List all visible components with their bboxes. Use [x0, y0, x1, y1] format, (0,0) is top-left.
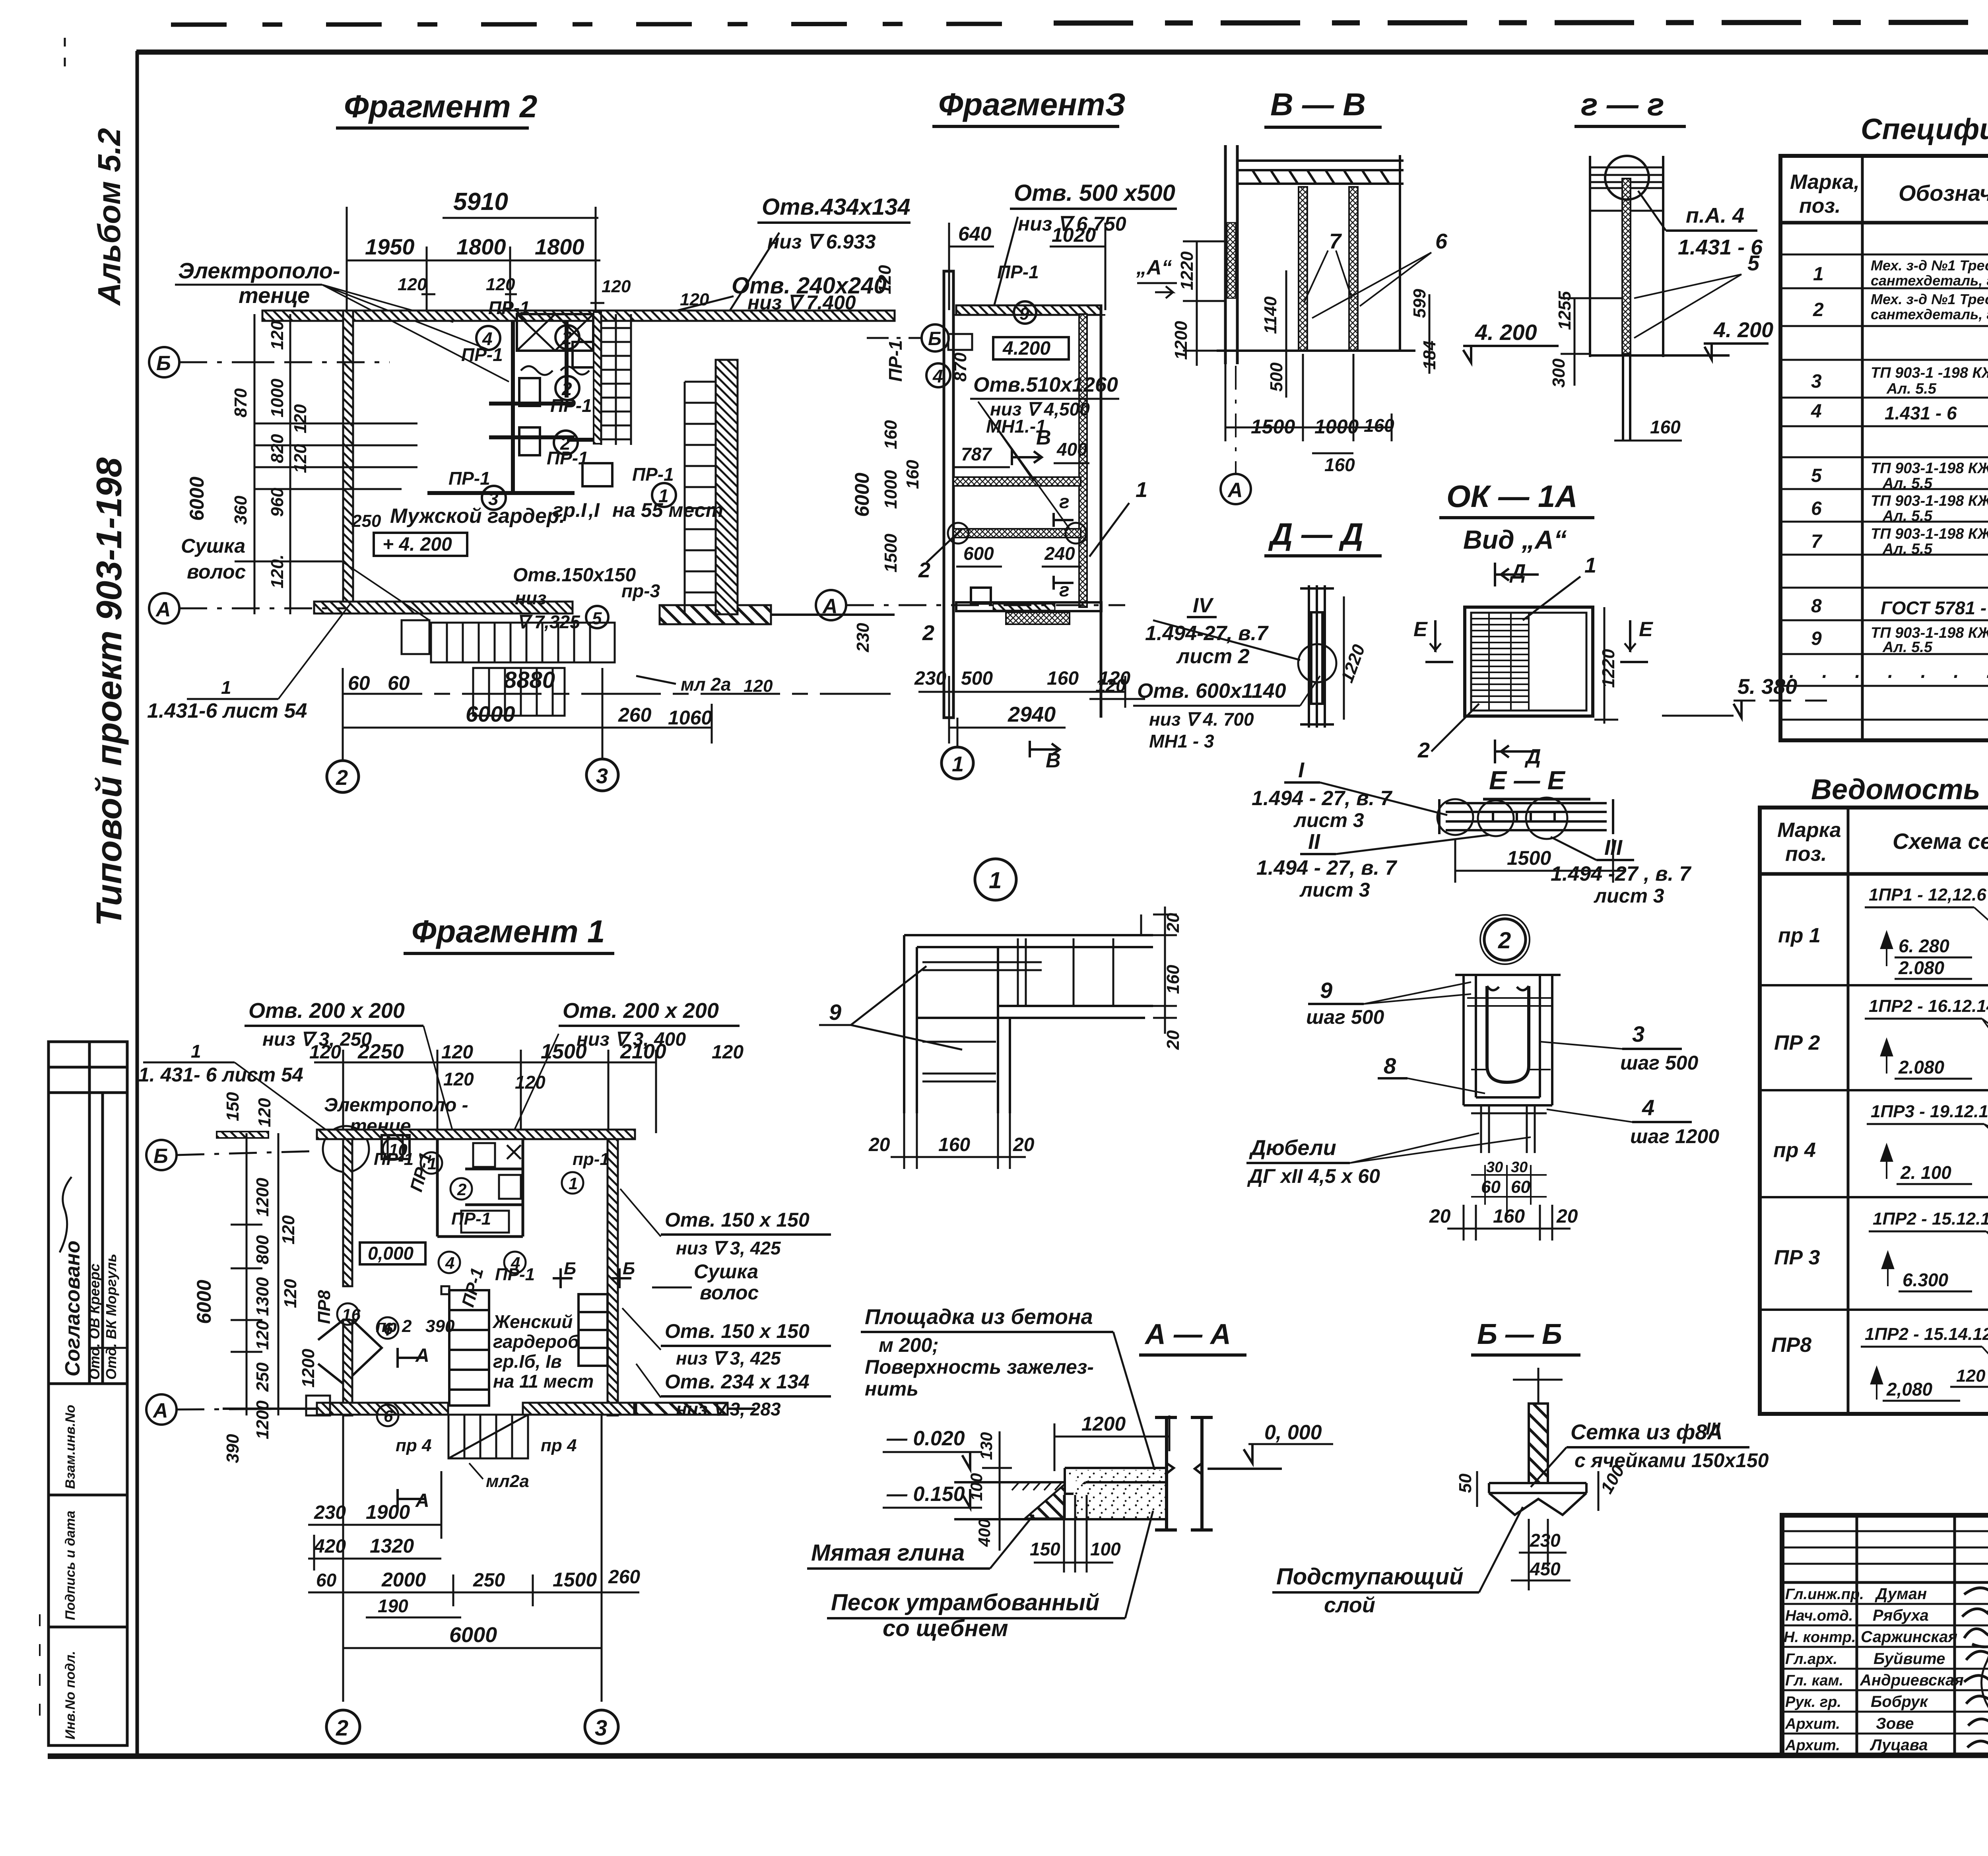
svg-text:5: 5: [592, 609, 602, 628]
central hatched post: [1622, 179, 1631, 354]
svg-text:6000: 6000: [186, 477, 208, 521]
svg-text:Мужской гардер.: Мужской гардер.: [390, 505, 565, 528]
svg-text:Б: Б: [156, 352, 171, 375]
svg-text:1140: 1140: [1261, 296, 1280, 334]
svg-text:1300: 1300: [253, 1277, 272, 1316]
svg-text:1ПР2 - 16.12.14: 1ПР2 - 16.12.14: [1869, 996, 1988, 1016]
svg-text:Д: Д: [1524, 745, 1541, 768]
svg-text:2,080: 2,080: [1886, 1379, 1933, 1400]
svg-text:Отд. ОВ Креерс: Отд. ОВ Креерс: [86, 1264, 103, 1380]
svg-text:1220: 1220: [1599, 649, 1618, 688]
svg-text:6000: 6000: [193, 1280, 215, 1324]
svg-text:120: 120: [279, 1215, 298, 1244]
svg-text:Сетка из ф8А: Сетка из ф8А: [1571, 1420, 1722, 1444]
svg-text:Марка,: Марка,: [1790, 171, 1860, 194]
svg-text:120: 120: [255, 1098, 274, 1127]
SECTGG: [1549, 87, 1773, 441]
svg-text:8: 8: [1384, 1053, 1396, 1078]
svg-text:120: 120: [1095, 675, 1126, 696]
svg-text:шаг 500: шаг 500: [1620, 1052, 1698, 1074]
svg-text:960: 960: [268, 487, 287, 517]
svg-text:2.080: 2.080: [1898, 957, 1945, 978]
right side dims: [1141, 907, 1177, 1034]
svg-text:1ПР2 - 15.14.12: 1ПР2 - 15.14.12: [1865, 1324, 1988, 1344]
svg-text:1800: 1800: [456, 234, 506, 259]
louvred half: [1471, 613, 1529, 711]
SECTBB: [1136, 87, 1559, 504]
svg-text:Схема сечения: Схема сечения: [1893, 829, 1988, 854]
ramp grid below: [448, 1415, 528, 1458]
svg-text:1200: 1200: [299, 1349, 318, 1388]
svg-text:1200: 1200: [1081, 1413, 1126, 1435]
svg-text:1.494 - 27, в. 7: 1.494 - 27, в. 7: [1252, 787, 1392, 810]
svg-text:1ПР2 - 15.12.14: 1ПР2 - 15.12.14: [1873, 1209, 1988, 1229]
vertical member: [1300, 585, 1334, 728]
svg-text:2. 100: 2. 100: [1900, 1162, 1951, 1183]
svg-text:Ал. 5.5: Ал. 5.5: [1882, 541, 1933, 557]
svg-text:Рук. гр.: Рук. гр.: [1785, 1694, 1841, 1710]
svg-text:Н. контр.: Н. контр.: [1784, 1629, 1856, 1646]
FRAG3: [816, 87, 1320, 779]
bottom dim chains: [308, 1415, 639, 1702]
svg-text:870: 870: [231, 388, 250, 417]
svg-text:787: 787: [961, 444, 992, 464]
svg-text:7: 7: [1329, 229, 1342, 253]
svg-text:30: 30: [1486, 1159, 1503, 1176]
hatched partition bands: [953, 477, 1081, 486]
walls: [317, 1130, 635, 1139]
svg-text:Отв. 150 х 150: Отв. 150 х 150: [665, 1209, 810, 1231]
svg-text:гардероб: гардероб: [493, 1331, 580, 1352]
svg-text:м 200;: м 200;: [879, 1334, 939, 1356]
svg-text:4. 200: 4. 200: [1475, 320, 1537, 345]
svg-text:сантехдеталь, г. Горький: сантехдеталь, г. Горький: [1871, 306, 1988, 322]
svg-text:слой: слой: [1324, 1593, 1375, 1617]
svg-text:А: А: [1227, 479, 1243, 502]
svg-text:на 55 мест: на 55 мест: [612, 499, 723, 521]
svg-text:волос: волос: [700, 1281, 759, 1304]
svg-text:Саржинская: Саржинская: [1861, 1628, 1957, 1646]
svg-text:Сушка: Сушка: [694, 1260, 758, 1283]
SECTEE: [1252, 758, 1691, 907]
svg-text:А: А: [415, 1490, 429, 1511]
column circle 1: [942, 747, 973, 779]
window frame: [1465, 607, 1593, 716]
inner rebar U: [1487, 986, 1529, 1082]
rebar ties horizontal leg: [922, 938, 1113, 1081]
svg-text:лист 3: лист 3: [1594, 885, 1664, 907]
svg-text:,I: ,I: [588, 499, 600, 521]
svg-text:Вид „А“: Вид „А“: [1463, 525, 1567, 554]
svg-text:пр 4: пр 4: [396, 1436, 431, 1455]
svg-text:160: 160: [1650, 417, 1681, 437]
svg-text:1.431 - 6: 1.431 - 6: [1885, 403, 1957, 423]
walls: top wall hatched: [262, 311, 895, 321]
svg-text:п.А. 4: п.А. 4: [1686, 204, 1744, 227]
svg-text:150: 150: [1030, 1539, 1060, 1559]
below-ground continuation: [1623, 355, 1630, 440]
svg-text:Б: Б: [564, 1259, 576, 1278]
horizontal member: [1439, 799, 1613, 834]
svg-text:9: 9: [1019, 304, 1029, 324]
svg-text:мл2а: мл2а: [486, 1472, 529, 1491]
svg-text:4: 4: [1811, 401, 1822, 422]
svg-text:450: 450: [1530, 1559, 1561, 1579]
svg-text:20: 20: [868, 1134, 890, 1155]
svg-text:Б: Б: [153, 1145, 168, 1168]
svg-text:пр 2: пр 2: [376, 1316, 412, 1336]
svg-text:60: 60: [348, 672, 370, 694]
svg-text:Думан: Думан: [1875, 1585, 1927, 1603]
signature scribbles: [60, 1177, 72, 1252]
top dim chain: [314, 1050, 656, 1133]
svg-text:ПР-1: ПР-1: [451, 1209, 491, 1229]
svg-text:Д: Д: [1509, 560, 1526, 583]
svg-text:ПР-1: ПР-1: [374, 1149, 414, 1169]
svg-text:Ал. 5.5: Ал. 5.5: [1882, 508, 1933, 524]
svg-text:6000: 6000: [449, 1623, 497, 1647]
svg-text:120: 120: [309, 1042, 341, 1063]
svg-text:120: 120: [515, 1072, 546, 1093]
svg-text:4: 4: [482, 328, 493, 349]
wardrobe racks right: [579, 1294, 608, 1366]
Б marks: [553, 1268, 573, 1288]
washbasins: [519, 378, 540, 406]
svg-text:низ ∇ 6.933: низ ∇ 6.933: [767, 231, 876, 253]
svg-text:1900: 1900: [366, 1501, 410, 1523]
svg-text:1320: 1320: [370, 1535, 414, 1557]
axis circle A: [1221, 474, 1251, 504]
PEREMTABLE: [1760, 774, 1988, 1414]
svg-text:1: 1: [191, 1041, 201, 1062]
lintel table grid: [1760, 808, 1988, 1414]
stray scan specks: [39, 1614, 41, 1722]
svg-text:Мех. з-д №1 Треста: Мех. з-д №1 Треста: [1871, 291, 1988, 307]
roof band: [1237, 161, 1404, 184]
svg-text:120: 120: [744, 676, 773, 696]
floor line: [1217, 349, 1415, 352]
outer boundary lines: [1589, 156, 1591, 357]
svg-text:низ ∇ 3, 283: низ ∇ 3, 283: [676, 1399, 781, 1419]
svg-text:пр 4: пр 4: [541, 1436, 577, 1455]
ground line: [1589, 354, 1730, 357]
svg-text:1.494 -27 , в. 7: 1.494 -27 , в. 7: [1551, 862, 1691, 885]
column circles: [327, 761, 359, 792]
roof lines: [1590, 167, 1664, 211]
svg-text:1: 1: [221, 677, 231, 698]
svg-text:20: 20: [1163, 913, 1183, 933]
svg-text:1060: 1060: [668, 707, 712, 729]
svg-text:160: 160: [1047, 668, 1079, 689]
svg-text:20: 20: [1556, 1206, 1578, 1227]
svg-text:500: 500: [961, 668, 993, 689]
svg-text:шаг 500: шаг 500: [1306, 1006, 1384, 1028]
top frame line (noisy scan edge): [136, 50, 1988, 55]
svg-text:1: 1: [569, 1174, 578, 1193]
svg-text:Д — Д: Д — Д: [1268, 516, 1363, 551]
svg-text:5: 5: [1811, 465, 1822, 486]
svg-text:+ 4. 200: + 4. 200: [382, 534, 452, 555]
circled callouts: [337, 1138, 583, 1426]
below dims: [1511, 1519, 1571, 1590]
svg-text:А: А: [822, 595, 838, 618]
svg-text:2: 2: [1813, 299, 1824, 320]
hatched posts: [1299, 187, 1307, 351]
ties: [1467, 998, 1553, 1070]
svg-text:пр-1: пр-1: [573, 1149, 610, 1169]
svg-text:120.: 120.: [268, 554, 287, 588]
svg-text:1255: 1255: [1555, 291, 1574, 330]
svg-text:3: 3: [1632, 1021, 1644, 1046]
svg-text:Гл.арх.: Гл.арх.: [1785, 1651, 1837, 1668]
svg-text:4. 200: 4. 200: [1713, 318, 1773, 342]
svg-text:120: 120: [441, 1042, 473, 1063]
svg-text:100: 100: [1090, 1539, 1121, 1559]
TITLEBLOCK: [1782, 1515, 1988, 1800]
svg-text:лист 2: лист 2: [1176, 645, 1250, 668]
svg-text:2: 2: [561, 379, 572, 399]
svg-text:Б: Б: [928, 328, 942, 349]
stair / corridor: [449, 1290, 489, 1406]
svg-text:4: 4: [1642, 1095, 1654, 1120]
svg-text:1.494 - 27, в. 7: 1.494 - 27, в. 7: [1256, 856, 1397, 879]
hatched column: [1529, 1404, 1548, 1483]
svg-text:— 0.150: — 0.150: [886, 1483, 965, 1506]
svg-text:IV: IV: [1193, 594, 1214, 617]
svg-text:1020: 1020: [1052, 224, 1096, 246]
svg-text:поз.: поз.: [1799, 194, 1841, 217]
svg-text:1500: 1500: [541, 1040, 587, 1063]
UZEL2: [1246, 915, 1719, 1241]
circled numbers: [476, 325, 950, 510]
svg-text:20: 20: [1429, 1206, 1451, 1227]
SECTAA: [807, 1305, 1333, 1641]
column circles: [326, 1710, 360, 1743]
svg-text:В — В: В — В: [1270, 87, 1366, 122]
svg-text:230: 230: [1530, 1530, 1561, 1551]
svg-text:160: 160: [1493, 1206, 1525, 1227]
svg-text:ПР-1: ПР-1: [632, 464, 674, 485]
svg-text:1200: 1200: [1171, 321, 1191, 360]
svg-text:Луцава: Луцава: [1870, 1736, 1928, 1754]
svg-text:1220: 1220: [1177, 251, 1197, 290]
svg-text:ПР-1: ПР-1: [885, 340, 906, 382]
bottom dims: [1225, 354, 1392, 453]
DETDD: [1089, 516, 1382, 728]
svg-text:Фрагмент 2: Фрагмент 2: [344, 89, 537, 124]
svg-text:1000: 1000: [881, 470, 901, 509]
svg-text:Отв. 200 х 200: Отв. 200 х 200: [248, 999, 405, 1023]
svg-text:Отв. 234 х 134: Отв. 234 х 134: [665, 1371, 810, 1393]
svg-text:6: 6: [1435, 229, 1448, 253]
svg-text:пр 4: пр 4: [1773, 1139, 1816, 1162]
svg-text:4: 4: [445, 1254, 454, 1272]
svg-text:4: 4: [932, 366, 943, 386]
top dims: [949, 223, 1105, 310]
floor line right of wall: [1208, 1468, 1282, 1470]
svg-text:III: III: [1706, 1419, 1720, 1439]
svg-text:В: В: [1036, 426, 1051, 449]
svg-text:230: 230: [853, 623, 873, 652]
zigzag door niches on left: [318, 1320, 343, 1384]
svg-text:Ал. 5.5: Ал. 5.5: [1882, 639, 1933, 656]
left wall: [343, 311, 353, 613]
svg-text:ТП 903-1-198 КЖИ-МН1-1: ТП 903-1-198 КЖИ-МН1-1: [1871, 460, 1988, 477]
svg-text:А: А: [152, 1399, 168, 1422]
svg-text:250: 250: [473, 1570, 505, 1591]
svg-text:на 11 мест: на 11 мест: [493, 1371, 594, 1392]
svg-text:1200: 1200: [253, 1400, 272, 1439]
svg-text:6: 6: [1811, 498, 1822, 519]
svg-text:3: 3: [1811, 371, 1822, 392]
svg-text:ДГ хII 4,5 х 60: ДГ хII 4,5 х 60: [1247, 1165, 1380, 1187]
svg-text:пр-3: пр-3: [621, 580, 660, 601]
FRAG2: [147, 89, 950, 792]
svg-text:0, 000: 0, 000: [1264, 1421, 1322, 1444]
svg-text:Типовой проект 903-1-198: Типовой проект 903-1-198: [89, 458, 129, 927]
svg-text:Подпись и дата: Подпись и дата: [63, 1510, 78, 1620]
Б axis circle for frag3: [922, 324, 949, 351]
svg-text:6. 280: 6. 280: [1899, 936, 1949, 956]
svg-text:низ: низ: [515, 588, 546, 608]
svg-text:1: 1: [1136, 478, 1147, 502]
svg-text:1: 1: [952, 752, 964, 776]
bathroom partitions: [427, 321, 599, 493]
svg-text:. . . . . . . . . .: . . . . . . . . . . . . . . .: [1789, 661, 1988, 682]
platform section: [954, 1468, 1167, 1519]
level box: [360, 1243, 425, 1264]
svg-text:Б: Б: [623, 1259, 635, 1278]
svg-text:1000: 1000: [1314, 415, 1359, 438]
svg-text:лист 3: лист 3: [1293, 809, 1364, 831]
bottom dims: [343, 668, 891, 761]
svg-text:120: 120: [1956, 1366, 1986, 1386]
vent shaft crossed: [517, 314, 593, 351]
svg-text:1ПР3 - 19.12.14: 1ПР3 - 19.12.14: [1871, 1102, 1988, 1121]
svg-text:1950: 1950: [365, 234, 415, 259]
svg-text:Песок утрамбованный: Песок утрамбованный: [831, 1590, 1099, 1615]
svg-text:Мех. з-д №1 Треста: Мех. з-д №1 Треста: [1871, 257, 1988, 274]
svg-text:9: 9: [1811, 628, 1822, 649]
svg-text:Сушка: Сушка: [181, 535, 245, 557]
svg-text:Площадка из бетона: Площадка из бетона: [865, 1305, 1093, 1329]
svg-text:20: 20: [1013, 1134, 1035, 1155]
svg-text:9: 9: [829, 1000, 841, 1025]
svg-text:160: 160: [1364, 415, 1394, 436]
svg-text:ПР8: ПР8: [315, 1290, 334, 1324]
svg-text:230: 230: [914, 668, 946, 689]
svg-text:Дюбели: Дюбели: [1249, 1136, 1336, 1160]
svg-text:1: 1: [1813, 264, 1824, 285]
svg-text:6: 6: [384, 1407, 393, 1425]
svg-text:лист 3: лист 3: [1299, 879, 1370, 901]
circled 9: [1014, 301, 1036, 324]
axis circles: [146, 1140, 177, 1170]
svg-text:1ПР1 - 12,12.6: 1ПР1 - 12,12.6: [1869, 885, 1986, 905]
svg-text:390: 390: [223, 1434, 243, 1463]
svg-text:1000: 1000: [268, 379, 287, 417]
svg-text:1.431-6 лист 54: 1.431-6 лист 54: [147, 699, 307, 722]
svg-text:7: 7: [1811, 531, 1823, 552]
right stair strip: [716, 360, 738, 614]
svg-text:Е — Е: Е — Е: [1489, 765, 1566, 795]
svg-text:Спецификация элементов вентк: Спецификация элементов венткамеры: [1861, 113, 1988, 146]
svg-text:160: 160: [938, 1134, 970, 1155]
svg-text:„А“: „А“: [1136, 256, 1172, 279]
svg-text:ПР8: ПР8: [1771, 1334, 1811, 1357]
svg-text:420: 420: [314, 1536, 346, 1557]
svg-text:Ал. 5.5: Ал. 5.5: [1886, 381, 1937, 397]
svg-text:6.300: 6.300: [1903, 1270, 1949, 1290]
svg-text:500: 500: [1267, 362, 1286, 392]
dim chain 5910: [347, 207, 604, 318]
svg-text:250: 250: [253, 1362, 272, 1392]
svg-text:2100: 2100: [620, 1040, 666, 1063]
svg-text:Отв.150х150: Отв.150х150: [513, 565, 636, 586]
svg-text:Нач.отд.: Нач.отд.: [1785, 1607, 1853, 1624]
svg-text:400: 400: [1056, 439, 1087, 460]
svg-text:Отв. 150 х 150: Отв. 150 х 150: [665, 1320, 810, 1342]
svg-text:240: 240: [1044, 543, 1075, 564]
svg-text:60: 60: [1511, 1177, 1530, 1197]
svg-text:г — г: г — г: [1581, 87, 1664, 122]
middle hatched wall and ladder: [594, 312, 601, 444]
svg-text:2250: 2250: [357, 1040, 404, 1063]
svg-text:4.200: 4.200: [1002, 338, 1050, 359]
svg-text:Электрополо-: Электрополо-: [178, 258, 340, 283]
svg-text:260: 260: [608, 1567, 640, 1588]
svg-text:шаг 1200: шаг 1200: [1630, 1125, 1719, 1147]
anchor dowels below: [1471, 1105, 1547, 1153]
svg-text:120: 120: [291, 444, 310, 473]
svg-text:Отд. ВК Моргуль: Отд. ВК Моргуль: [103, 1254, 119, 1380]
svg-text:ТП 903-1 -198 КЖИ-МС1: ТП 903-1 -198 КЖИ-МС1: [1871, 365, 1988, 381]
svg-text:Мятая глина: Мятая глина: [811, 1540, 965, 1566]
svg-text:1. 431- 6 лист 54: 1. 431- 6 лист 54: [138, 1064, 303, 1086]
dim 1500: [1455, 839, 1626, 883]
bottom stairs: [402, 620, 615, 716]
left wall double: [1225, 145, 1237, 364]
U-shaped wall channel: [1455, 975, 1561, 1105]
svg-text:5: 5: [1747, 251, 1760, 275]
svg-text:599: 599: [1410, 289, 1429, 318]
svg-text:ФрагментЗ: ФрагментЗ: [938, 87, 1126, 122]
svg-text:8: 8: [1811, 596, 1822, 617]
svg-text:сантехдеталь, г. Горький: сантехдеталь, г. Горький: [1871, 272, 1988, 289]
svg-text:Гл.инж.пр.: Гл.инж.пр.: [1785, 1586, 1864, 1603]
svg-text:Архит.: Архит.: [1785, 1737, 1840, 1754]
svg-text:820: 820: [268, 434, 287, 463]
svg-text:со щебнем: со щебнем: [883, 1615, 1008, 1641]
svg-text:120: 120: [875, 265, 895, 294]
svg-text:1500: 1500: [1507, 847, 1551, 869]
svg-text:тенце: тенце: [239, 283, 310, 308]
left dim ladder: [239, 314, 417, 614]
node 1 callout circle: [975, 859, 1016, 900]
svg-text:6000: 6000: [466, 701, 515, 726]
svg-text:Бобрук: Бобрук: [1871, 1693, 1928, 1710]
svg-text:Отв.510х1260: Отв.510х1260: [973, 373, 1118, 396]
bathroom partitions: [437, 1139, 523, 1237]
svg-text:60: 60: [388, 672, 410, 694]
svg-text:нить: нить: [865, 1378, 918, 1400]
svg-text:ПР 2: ПР 2: [1774, 1031, 1820, 1054]
svg-text:16: 16: [342, 1305, 361, 1324]
svg-text:ГОСТ 5781 - 81: ГОСТ 5781 - 81: [1881, 598, 1988, 618]
svg-text:Марка: Марка: [1777, 819, 1841, 842]
svg-text:Зове: Зове: [1876, 1715, 1914, 1732]
base slab: [1489, 1483, 1586, 1515]
